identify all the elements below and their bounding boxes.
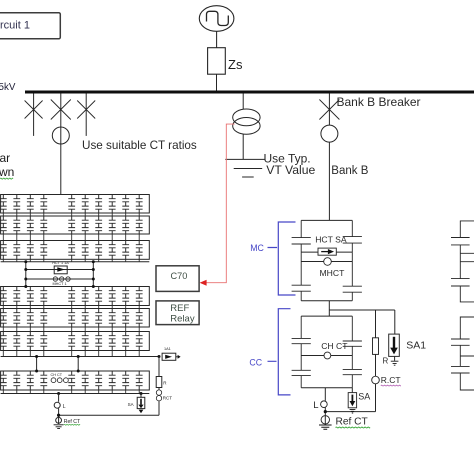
label box Circuit 1 [0,13,60,39]
row6 collector rail [1,356,159,358]
relay C70 box [156,266,199,292]
row3 collector rail [1,261,150,263]
capacitor string row1 col8 [109,195,116,214]
wire row3 to rail col2 [16,259,18,262]
wire RCT down bank B [375,384,377,412]
wire band connector x4 y305.5 [43,306,45,309]
capacitor string row1 col1 [0,195,7,214]
svg-text:VT Value: VT Value [266,163,315,177]
capacitor string row5 col8 [109,309,116,328]
svg-text:C70: C70 [171,271,188,281]
wire row3 to rail col8 [111,259,113,262]
capacitor string row1 col6 [82,195,89,214]
capacitor string row7 col6 [82,371,89,390]
svg-text:Circuit 1: Circuit 1 [0,19,30,31]
svg-text:MC: MC [250,243,264,253]
svg-text:L: L [63,404,66,410]
svg-text:wn: wn [0,165,14,179]
MC right branch capacitor upper [343,220,362,252]
RCT circles [156,390,161,395]
wire band connector x2 y305.5 [16,306,18,309]
CC left branch capacitor upper [292,316,311,355]
surge arrester SA1 [389,334,400,356]
wire band connector x5 y350.5 [71,351,73,357]
VT ground [234,169,263,178]
wire band connector x3 y327.0 [29,327,31,332]
capacitor string row2 col8 [109,216,116,234]
Ref CT circle left bank [56,417,62,423]
wire band connector x10 y350.5 [138,351,140,357]
capacitor string row3 col6 [82,241,89,260]
capacitor string row5 col3 [27,309,34,328]
svg-text:Bank B Breaker: Bank B Breaker [337,95,421,109]
neutral ground wire [59,414,159,416]
CC bridge top [301,315,352,317]
wire band connector x5 y305.5 [71,306,73,309]
wire row3 to rail col10 [138,259,140,262]
wire band connector x7 y327.0 [98,327,100,332]
wire drop left row6-row7 [36,357,38,372]
svg-text:HCT SA: HCT SA [315,234,347,244]
capacitor string row2 col10 [136,216,143,234]
red arrow to C70 [200,280,207,286]
ground bank B [319,425,332,429]
wire band connector x1 y350.5 [2,351,4,357]
wire band connector x2 y213.0 [16,213,18,216]
svg-text:R: R [383,357,389,366]
wire band connector x3 y305.5 [29,306,31,309]
wire band connector x7 y305.5 [98,306,100,309]
capacitor string row7 col2 [13,371,20,390]
H-bridge right wire [92,262,94,287]
wire band connector x7 y234.0 [98,234,100,241]
wire band connector x5 y390.0 [71,390,73,394]
source impedance Zs [208,48,226,74]
capacitor string row7 col5 [68,371,75,390]
bridge CT HCT box [54,266,67,274]
capacitor string row4 col9 [122,287,129,306]
wire band connector x2 y350.5 [16,351,18,357]
svg-text:MHCT: MHCT [320,268,346,278]
capacitor string row4 col7 [95,287,102,306]
capacitor string row6 col5 [68,332,75,351]
capacitor string row2 col3 [27,216,34,234]
wire band connector x6 y327.0 [84,327,86,332]
capacitor string row3 col7 [95,241,102,260]
capacitor string row6 col8 [109,332,116,351]
junction dot neutral bank B [324,410,327,413]
wire band connector x10 y213.0 [138,213,140,216]
wire band connector x4 y350.5 [43,351,45,357]
junction dot collector right [158,355,161,358]
resistor R left bank [156,377,162,388]
generator G (AC source) [199,6,234,32]
surge arrester SA bank B [348,393,356,408]
H-bridge left wire [25,262,27,287]
wire band connector x2 y234.0 [16,234,18,241]
breaker X3 [77,101,95,119]
capacitor string row4 col4 [40,287,47,306]
CH CT circles row7 [51,378,56,383]
capacitor bank row 4 frame [1,287,150,306]
capacitor string row2 col4 [40,216,47,234]
wire band connector x9 y350.5 [125,351,127,357]
wire band connector x10 y234.0 [138,234,140,241]
wire band connector x5 y234.0 [71,234,73,241]
spellcheck squiggle under wn [0,177,13,180]
capacitor string row5 col10 [136,309,143,328]
wire band connector x9 y390.0 [125,390,127,394]
inductor L bank B [321,401,328,408]
capacitor string row1 col3 [27,195,34,214]
capacitor string row3 col1 [0,241,7,260]
wire row3 to rail col5 [71,259,73,262]
capacitor string row7 col4 [40,371,47,390]
wire band connector x7 y390.0 [98,390,100,394]
capacitor string row6 col7 [95,332,102,351]
wire row7 to L [58,394,60,402]
svg-text:Relay: Relay [170,313,195,324]
capacitor string row6 col3 [27,332,34,351]
capacitor string row3 col5 [68,241,75,260]
capacitor string row1 col9 [122,195,129,214]
wire to SA1 [394,310,396,334]
wire band connector x5 y327.0 [71,327,73,332]
wire row3 to rail col6 [84,259,86,262]
svg-text:Ref CT: Ref CT [64,419,81,425]
wire band connector x8 y390.0 [111,390,113,394]
row7 bottom rail [1,393,150,395]
svg-text:Use suitable CT ratios: Use suitable CT ratios [82,139,197,152]
wire band connector x3 y213.0 [29,213,31,216]
CC right branch capacitor lower [343,356,362,388]
svg-text:ar: ar [0,151,10,165]
svg-text:RCT: RCT [163,396,172,401]
wire CT to Bank B [328,142,330,220]
wire CC to SA bank B [351,388,353,393]
wire band connector x9 y234.0 [125,234,127,241]
capacitor string row3 col8 [109,241,116,260]
wire VT secondary [242,134,244,159]
svg-text:5kV: 5kV [0,82,16,93]
wire row3 to rail col3 [29,259,31,262]
H-bridge upper rail [26,269,94,271]
svg-text:Ref CT: Ref CT [336,416,368,427]
CC bridge middle rail [301,355,352,357]
wire drop right row6-row7 [77,357,79,372]
svg-text:Zs: Zs [228,57,243,72]
svg-text:CH CT: CH CT [51,373,63,377]
capacitor bank row 5 frame [1,309,150,328]
CC bracket [268,309,291,395]
MC bridge top [301,219,352,221]
R CT circle bank B [372,376,380,384]
capacitor string row2 col9 [122,216,129,234]
wire band connector x1 y327.0 [2,327,4,332]
feeder wire bank 1 lower [60,127,62,195]
wire band connector x6 y234.0 [84,234,86,241]
CT circle on bank 1 feeder [52,127,69,144]
svg-text:HCT 1 1A: HCT 1 1A [52,261,69,265]
wire band connector x6 y350.5 [84,351,86,357]
wire MC to CC [328,301,330,316]
wire generator to Zs [216,31,218,47]
capacitor bank row 6 frame [1,332,150,351]
capacitor string row6 col4 [40,332,47,351]
svg-text:Bank B: Bank B [331,165,368,177]
wire band connector x1 y213.0 [2,213,4,216]
capacitor string row4 col3 [27,287,34,306]
wire L to ground [58,408,60,424]
neutral amp CT box [162,353,176,360]
CC bridge bottom [301,387,352,389]
capacitor string row4 col6 [82,287,89,306]
wire band connector x4 y327.0 [43,327,45,332]
capacitor string row6 col6 [82,332,89,351]
capacitor bank row 7 frame [1,371,150,390]
Bank A MC bridge left wire [451,221,474,302]
capacitor string row7 col1 [0,371,7,390]
capacitor string row2 col5 [68,216,75,234]
wire RCT to ground bus [158,401,160,415]
capacitor string row5 col2 [13,309,20,328]
capacitor string row4 col5 [68,287,75,306]
capacitor string row1 col2 [13,195,20,214]
wire row3 to rail col9 [125,259,127,262]
relay REF box [156,301,199,325]
MC right branch capacitor lower [343,252,362,301]
wire Zs to bus [216,74,218,91]
capacitor string row5 col4 [40,309,47,328]
VT secondary lead [225,158,264,160]
capacitor string row2 col1 [0,216,7,234]
capacitor string row3 col3 [27,241,34,260]
capacitor string row1 col4 [40,195,47,214]
MC bracket [268,222,296,295]
capacitor string row2 col7 [95,216,102,234]
Bank B CT circle [321,125,338,142]
capacitor string row6 col10 [136,332,143,351]
capacitor string row2 col2 [13,216,20,234]
bridge CT MHCT circles [53,277,57,281]
wire to R bank B [375,310,377,338]
resistor R bank B [373,338,379,355]
wire row3 to rail col7 [98,259,100,262]
wire band connector x4 y390.0 [43,390,45,394]
svg-text:CC: CC [249,357,262,367]
wire band connector x5 y213.0 [71,213,73,216]
svg-text:SA1: SA1 [406,339,426,351]
wire band connector x9 y213.0 [125,213,127,216]
wire band connector x8 y213.0 [111,213,113,216]
capacitor string row4 col1 [0,287,7,306]
wire band connector x4 y234.0 [43,234,45,241]
red VT sensing wire [206,124,235,283]
breaker X2 [51,100,71,120]
capacitor string row3 col10 [136,241,143,260]
wire band connector x6 y390.0 [84,390,86,394]
wire band connector x2 y327.0 [16,327,18,332]
CC left branch capacitor lower [292,356,311,388]
wire row3 to rail col4 [43,259,45,262]
capacitor string row7 col8 [109,371,116,390]
wire L to Ref CT bank B [324,408,326,425]
CH CT circle [324,352,331,359]
junction dot SA left bank [140,392,143,395]
capacitor bank row 1 frame [1,195,150,214]
MC bridge middle rail lower [301,261,352,263]
wire band connector x8 y305.5 [111,306,113,309]
inductor L left bank [54,402,60,408]
svg-text:MHCT 1: MHCT 1 [53,282,67,286]
wire band connector x3 y350.5 [29,351,31,357]
capacitor string row1 col10 [136,195,143,214]
svg-text:SA: SA [358,391,370,401]
wire band connector x8 y327.0 [111,327,113,332]
breaker X1 [25,101,43,119]
capacitor string row5 col5 [68,309,75,328]
capacitor string row6 col1 [0,332,7,351]
capacitor string row7 col9 [122,371,129,390]
wire neutral junction to arresters [329,309,395,311]
svg-text:L: L [313,400,318,411]
junction dot neutral left [57,414,60,417]
capacitor string row5 col9 [122,309,129,328]
capacitor string row3 col4 [40,241,47,260]
HCT SA box [318,248,336,255]
capacitor string row2 col6 [82,216,89,234]
svg-text:SA: SA [128,402,134,407]
MC bridge middle rail upper [301,251,352,253]
wire RCT to neutral bank B [325,411,375,413]
Ref CT circle bank B [321,416,329,424]
wire band connector x9 y305.5 [125,306,127,309]
capacitor string row1 col7 [95,195,102,214]
bus 34.5kV [25,91,474,94]
capacitor string row6 col2 [13,332,20,351]
wire band connector x7 y213.0 [98,213,100,216]
wire CC to L bank B [324,388,326,401]
capacitor string row5 col7 [95,309,102,328]
MHCT circle [324,258,332,266]
wire band connector x6 y213.0 [84,213,86,216]
wire band connector x8 y234.0 [111,234,113,241]
wire band connector x6 y305.5 [84,306,86,309]
capacitor string row7 col10 [136,371,143,390]
ground left bank [54,425,64,429]
wire band connector x1 y305.5 [2,306,4,309]
capacitor string row1 col5 [68,195,75,214]
wire row3 to rail col1 [2,259,4,262]
wire bus to Bank B breaker [328,93,330,125]
wire band connector x10 y327.0 [138,327,140,332]
SA ground bank B [350,409,356,413]
wire band connector x7 y350.5 [98,351,100,357]
Bank A CC bridge left wire [451,317,474,390]
wire band connector x3 y390.0 [29,390,31,394]
bridge junction dots [24,260,27,263]
feeder stub 1 [33,93,35,135]
wire band connector x1 y234.0 [2,234,4,241]
wire R to RCT bank B [375,354,377,376]
capacitor string row4 col10 [136,287,143,306]
wire to SA left bank [140,394,142,398]
junction dot L left bank [57,392,60,395]
capacitor string row4 col8 [109,287,116,306]
wire band connector x10 y305.5 [138,306,140,309]
capacitor string row7 col7 [95,371,102,390]
MC bridge bottom [301,300,352,302]
wire band connector x8 y350.5 [111,351,113,357]
capacitor bank row 2 frame [1,216,150,234]
capacitor bank row 3 frame [1,241,150,260]
svg-text:R.CT: R.CT [381,375,401,385]
feeder wire bank 1 upper [60,93,62,127]
wire band connector x3 y234.0 [29,234,31,241]
wire band connector x2 y390.0 [16,390,18,394]
wire band connector x1 y390.0 [2,390,4,394]
capacitor string row7 col3 [27,371,34,390]
wire amp output [176,356,178,358]
svg-text:1A1: 1A1 [164,347,171,351]
wire band connector x4 y213.0 [43,213,45,216]
capacitor string row3 col2 [13,241,20,260]
svg-text:CH CT: CH CT [321,341,348,351]
H-bridge lower rail [26,278,94,280]
wire band connector x10 y390.0 [138,390,140,394]
capacitor string row5 col1 [0,309,7,328]
wire bus to VT [242,93,244,109]
wire R to RCT [158,388,160,391]
surge arrester SA left bank [137,397,145,408]
VT voltage transformer [233,109,260,126]
Bank B breaker X [319,100,339,120]
drop junction dots [35,355,38,358]
capacitor string row6 col9 [122,332,129,351]
MC left branch capacitor upper [292,220,311,252]
MC left branch capacitor lower [292,252,311,301]
capacitor string row4 col2 [13,287,20,306]
wire band connector x9 y327.0 [125,327,127,332]
wire collector to R [158,357,160,377]
feeder stub 3 [85,93,87,135]
CC right branch capacitor upper [343,316,362,355]
SA1 ground [394,356,396,360]
capacitor string row5 col6 [82,309,89,328]
capacitor string row3 col9 [122,241,129,260]
